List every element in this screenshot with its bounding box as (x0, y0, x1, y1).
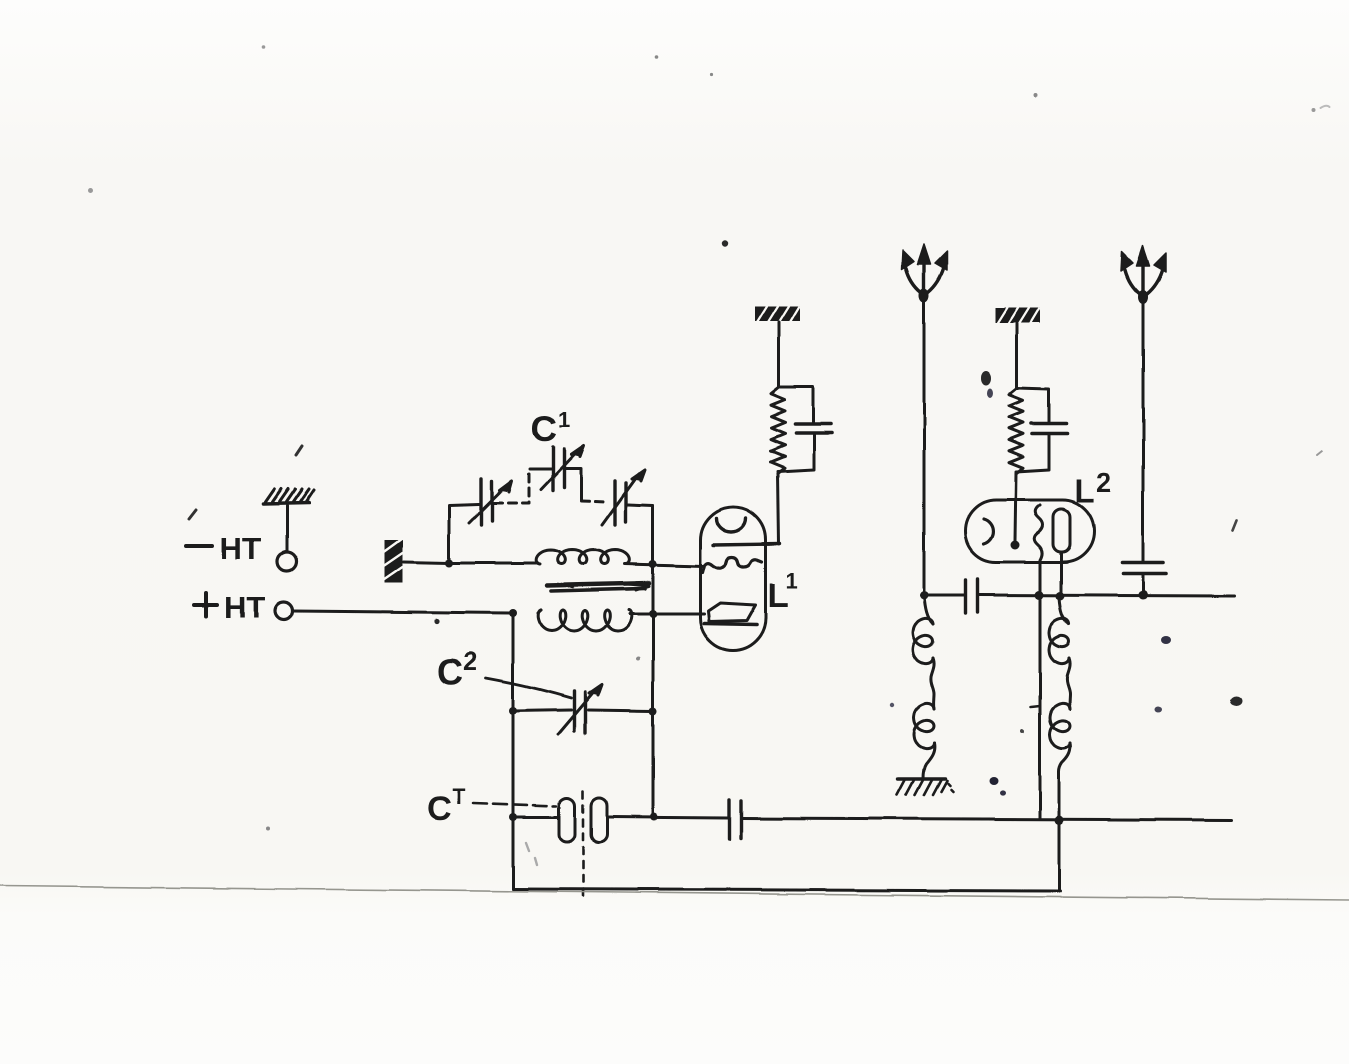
ground (hatched) earth coil (897, 779, 953, 795)
resistor R2 (1009, 389, 1023, 474)
node junction plate-drop/bus (1056, 592, 1065, 601)
ground (hatched) above -HT (263, 489, 314, 504)
node junction antenna/bus (920, 591, 929, 600)
terminal circle -HT (278, 552, 297, 571)
capacitor CT (split stator) (513, 791, 728, 901)
label L2 (1075, 467, 1112, 509)
node junction grid-drop/bus (1035, 591, 1044, 600)
antenna 2 (1121, 246, 1166, 562)
capacitor (parallel with R2) (1016, 388, 1067, 472)
wire (dashed link) (494, 470, 529, 503)
svg-text:1: 1 (786, 568, 798, 593)
filament plate (708, 603, 756, 622)
svg-text:HT: HT (224, 590, 265, 625)
wire bottom return (513, 889, 1060, 891)
transformer core (547, 583, 649, 591)
plate oval (1053, 509, 1070, 552)
node junction CT left (509, 813, 517, 821)
page rule line (0, 886, 1349, 900)
svg-text:2: 2 (1096, 467, 1112, 498)
terminal circle +HT (275, 602, 293, 620)
wire (404, 562, 449, 563)
svg-text:HT: HT (220, 531, 261, 566)
svg-text:T: T (452, 784, 466, 809)
label C1 (531, 407, 570, 449)
wire (778, 322, 781, 387)
wire vertical left tank (512, 613, 515, 889)
node junction C2 left (509, 707, 517, 715)
wire (778, 474, 779, 544)
wire vertical right tank (652, 506, 655, 817)
wire +HT feed (293, 611, 513, 613)
cathode arc (984, 519, 993, 544)
ground block (chassis) left of grid circuit (384, 539, 449, 583)
node junction antenna2/bus (1139, 591, 1148, 600)
capacitor (variable, left of C1) (469, 479, 512, 525)
wire (1142, 298, 1145, 562)
svg-text:C: C (427, 790, 452, 828)
node junction CT right (650, 813, 658, 821)
capacitor (antenna 2 series) (1122, 563, 1166, 595)
bus wire (924, 595, 1234, 596)
node junction plate-coil/CT row (1055, 816, 1064, 825)
node A junction (445, 559, 453, 567)
node junction top-right (649, 560, 657, 568)
ink specks (88, 45, 1330, 865)
capacitor (series coupling on CT row) (729, 800, 1231, 839)
plate lead (713, 544, 780, 545)
svg-text:C: C (437, 651, 463, 692)
capacitor (grid, parallel with R1) (778, 387, 832, 472)
wire top row (grid side) (449, 562, 538, 565)
node junction +HT/right tank (649, 610, 657, 618)
wire leader CT (473, 803, 556, 806)
wire tick on L2 grid drop (1031, 706, 1040, 707)
anode cup (716, 518, 746, 532)
svg-text:1: 1 (558, 407, 570, 432)
label L1 (768, 568, 798, 615)
antenna 1 (902, 244, 947, 595)
node -HT terminal (184, 489, 314, 571)
capacitor C2 (variable) (513, 684, 653, 734)
wire antenna feeder (923, 296, 926, 595)
inductor (plate coil) (1049, 598, 1070, 891)
inductor T1 primary (top coil) (536, 550, 630, 564)
svg-text:2: 2 (463, 646, 477, 676)
label -HT (184, 531, 261, 566)
wire L2 grid drop (1039, 562, 1042, 818)
grid (wavy) (702, 557, 762, 572)
label +HT (192, 590, 265, 625)
capacitor (variable, right of C1) (602, 470, 653, 563)
wire (dashed link) (581, 501, 607, 502)
ground (hatched) above R2 (995, 308, 1040, 324)
wire L2 plate drop (1060, 552, 1063, 598)
wire to valve filament (630, 613, 704, 616)
wire leader C2 (486, 678, 571, 698)
label C2 (437, 646, 477, 692)
ground (hatched) above grid-leak (755, 306, 800, 322)
node junction C2 right (649, 707, 657, 715)
wire to valve grid (625, 564, 704, 566)
inductor T1 secondary (bottom coil) (538, 610, 632, 631)
resistor R1 (grid leak) (771, 388, 785, 474)
node junction +HT/left tank (509, 609, 517, 617)
node grid terminal blob in L2 (1011, 541, 1020, 550)
wire up to left trimmer (449, 504, 479, 563)
inductor (earth coil) (913, 595, 934, 779)
valve V1 envelope (700, 507, 780, 651)
svg-text:C: C (531, 408, 557, 449)
grid squiggle (1034, 505, 1043, 566)
svg-text:L: L (1075, 473, 1095, 509)
node +HT terminal (192, 590, 513, 625)
label CT (427, 784, 466, 828)
capacitor C1 (variable, centre) (530, 446, 584, 500)
wire into L2 (1015, 473, 1016, 541)
valve V2 (L2) envelope (965, 500, 1094, 566)
capacitor (series, antenna bus) (966, 579, 978, 613)
wire (286, 506, 289, 551)
wire (1016, 324, 1019, 388)
